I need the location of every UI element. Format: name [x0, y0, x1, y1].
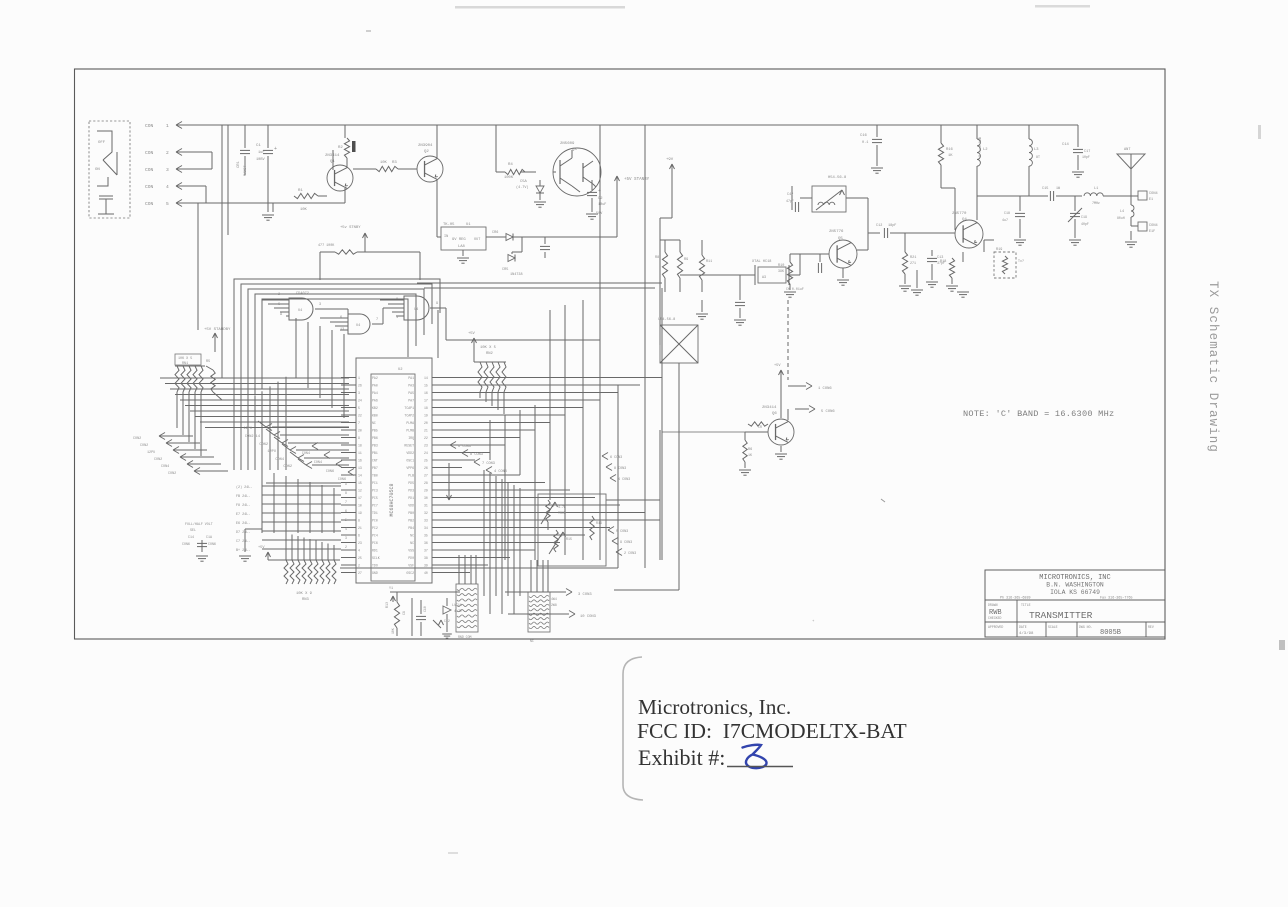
svg-text:25: 25	[424, 458, 428, 462]
svg-text:Tx?: Tx?	[1018, 259, 1024, 263]
svg-text:C19: C19	[1081, 215, 1087, 219]
svg-text:PB3: PB3	[372, 443, 378, 447]
svg-text:E7 24L-: E7 24L-	[236, 513, 250, 517]
svg-text:C14: C14	[188, 535, 194, 539]
svg-text:100K: 100K	[504, 176, 514, 180]
svg-text:33: 33	[424, 518, 428, 522]
svg-text:CK 0.01uF: CK 0.01uF	[786, 287, 804, 291]
svg-text:CON2: CON2	[283, 465, 292, 469]
svg-text:ANT: ANT	[1124, 148, 1131, 152]
svg-text:R1: R1	[298, 189, 303, 193]
svg-text:26: 26	[424, 466, 428, 470]
svg-text:+5v STNBY: +5v STNBY	[340, 226, 361, 230]
svg-text:19: 19	[424, 413, 428, 417]
svg-text:271: 271	[910, 261, 916, 265]
svg-text:80uH: 80uH	[1117, 216, 1125, 220]
svg-text:Q4: Q4	[962, 218, 967, 222]
svg-text:FULL/HALF VOLT: FULL/HALF VOLT	[185, 522, 213, 526]
svg-text:PD5: PD5	[408, 481, 414, 485]
svg-text:PC1: PC1	[372, 481, 378, 485]
svg-text:VSS: VSS	[408, 548, 414, 552]
svg-text:PLMB: PLMB	[406, 428, 414, 432]
svg-text:3: 3	[358, 391, 360, 395]
svg-text:+: +	[274, 146, 277, 152]
svg-text:32: 32	[424, 511, 428, 515]
svg-text:CON2: CON2	[168, 472, 176, 476]
svg-text:4 CON3: 4 CON3	[618, 478, 630, 482]
svg-text:1 CON6: 1 CON6	[818, 387, 832, 391]
svg-text:8: 8	[358, 518, 360, 522]
svg-text:VDD2: VDD2	[406, 451, 414, 455]
svg-text:R8: R8	[655, 256, 659, 260]
svg-text:PA6: PA6	[372, 398, 378, 402]
svg-text:LA8: LA8	[458, 245, 466, 249]
svg-text:RN2: RN2	[486, 352, 494, 356]
svg-text:MAX87: MAX87	[244, 165, 248, 176]
svg-text:8: 8	[345, 491, 347, 495]
svg-text:10 CON3: 10 CON3	[580, 615, 597, 619]
svg-text:4: 4	[166, 184, 169, 190]
svg-text:1N4738: 1N4738	[510, 273, 523, 277]
svg-text:C8: C8	[402, 611, 406, 615]
svg-text:13: 13	[358, 466, 362, 470]
svg-text:21: 21	[424, 428, 428, 432]
svg-text:CON6: CON6	[182, 542, 190, 546]
svg-text:27: 27	[358, 571, 362, 575]
svg-text:3: 3	[166, 167, 169, 173]
svg-text:C12: C12	[444, 619, 450, 623]
svg-text:DWG NO.: DWG NO.	[1079, 625, 1092, 629]
svg-text:REV: REV	[1148, 625, 1154, 629]
svg-text:10uF: 10uF	[598, 203, 606, 207]
svg-text:5: 5	[358, 406, 360, 410]
svg-text:CON6: CON6	[208, 542, 216, 546]
svg-text:CON4: CON4	[1149, 224, 1158, 228]
svg-text:12: 12	[358, 488, 362, 492]
svg-text:KB0: KB0	[372, 413, 378, 417]
svg-text:RND COM: RND COM	[458, 635, 471, 639]
svg-text:RD1: RD1	[372, 548, 378, 552]
svg-text:PD1: PD1	[408, 496, 414, 500]
svg-text:23: 23	[358, 541, 362, 545]
svg-text:TRIM: TRIM	[558, 511, 566, 515]
svg-text:U4: U4	[356, 324, 360, 328]
svg-text:31: 31	[424, 503, 428, 507]
svg-text:+9V: +9V	[666, 158, 674, 162]
svg-text:TCAP1: TCAP1	[404, 406, 414, 410]
svg-text:Q2: Q2	[424, 150, 429, 154]
svg-text:CON4: CON4	[161, 465, 169, 469]
svg-text:Fax 316-365-7765: Fax 316-365-7765	[1100, 597, 1133, 601]
svg-text:10K: 10K	[300, 208, 308, 212]
svg-text:R13: R13	[385, 602, 389, 608]
svg-text:1W: 1W	[1056, 186, 1060, 190]
svg-text:PA0: PA0	[372, 383, 378, 387]
svg-text:15: 15	[358, 481, 362, 485]
svg-text:5: 5	[166, 201, 169, 207]
svg-text:10K X 5: 10K X 5	[480, 346, 497, 350]
svg-text:16: 16	[424, 391, 428, 395]
svg-text:VDD: VDD	[408, 503, 414, 507]
svg-text:30: 30	[424, 496, 428, 500]
svg-text:Q3: Q3	[572, 148, 577, 152]
svg-text:6 CON3: 6 CON3	[458, 445, 471, 449]
svg-text:U54-56-8: U54-56-8	[658, 318, 675, 322]
svg-text:CR1: CR1	[237, 160, 241, 168]
svg-text:PC4: PC4	[372, 533, 378, 537]
svg-text:CON4: CON4	[302, 452, 310, 456]
svg-text:26: 26	[358, 383, 362, 387]
svg-text:C17: C17	[1084, 150, 1090, 154]
svg-text:C18: C18	[1004, 211, 1010, 215]
svg-text:2: 2	[345, 545, 347, 549]
svg-text:R16: R16	[946, 148, 954, 152]
svg-text:7: 7	[358, 421, 360, 425]
svg-text:PA1: PA1	[408, 376, 414, 380]
svg-text:TX Schematic Drawing: TX Schematic Drawing	[1206, 281, 1220, 453]
svg-text:2W8: 2W8	[551, 603, 557, 607]
svg-text:C15: C15	[1042, 187, 1048, 191]
svg-text:5 CON6: 5 CON6	[821, 410, 835, 414]
svg-text:R21: R21	[910, 256, 916, 260]
svg-text:B.N. WASHINGTON: B.N. WASHINGTON	[1046, 582, 1104, 589]
svg-text:(4.7V): (4.7V)	[516, 185, 529, 190]
svg-text:TB0: TB0	[372, 473, 378, 477]
svg-text:PC3: PC3	[372, 488, 378, 492]
svg-text:PB1: PB1	[372, 451, 378, 455]
svg-text:F8 24L-: F8 24L-	[236, 504, 250, 508]
svg-text:VPP6: VPP6	[406, 466, 414, 470]
svg-text:5: 5	[345, 518, 347, 522]
svg-text:U1: U1	[466, 223, 471, 227]
svg-text:L1: L1	[1094, 187, 1098, 191]
svg-text:C14: C14	[1062, 143, 1070, 147]
svg-text:OFF: OFF	[98, 141, 106, 145]
svg-text:10: 10	[358, 503, 362, 507]
svg-text:PD3: PD3	[408, 488, 414, 492]
svg-text:12PU: 12PU	[243, 427, 252, 431]
svg-text:9: 9	[358, 436, 360, 440]
svg-text:10K: 10K	[380, 161, 388, 165]
svg-text:7 CON3: 7 CON3	[482, 462, 495, 466]
svg-text:PC7: PC7	[372, 503, 378, 507]
svg-text:3?pF: 3?pF	[937, 261, 945, 265]
svg-text:PC0: PC0	[372, 518, 378, 522]
svg-text:XTAL HC18: XTAL HC18	[752, 260, 771, 264]
svg-text:477 100K: 477 100K	[318, 244, 335, 248]
svg-text:35: 35	[424, 533, 428, 537]
svg-text:47pF: 47pF	[786, 199, 794, 203]
svg-text:CR5: CR5	[502, 268, 508, 272]
svg-text:C16: C16	[860, 134, 868, 138]
svg-text:L2: L2	[983, 148, 988, 152]
svg-text:+5V: +5V	[468, 332, 476, 336]
svg-text:PA7: PA7	[408, 398, 414, 402]
svg-text:CNT: CNT	[372, 458, 378, 462]
svg-text:PC6: PC6	[372, 541, 378, 545]
svg-text:22: 22	[424, 436, 428, 440]
svg-text:4: 4	[345, 527, 347, 531]
svg-text:A: A	[280, 313, 283, 317]
svg-text:2: 2	[166, 150, 169, 156]
svg-text:19: 19	[358, 511, 362, 515]
svg-text:CON6: CON6	[326, 470, 334, 474]
svg-text:39: 39	[424, 563, 428, 567]
svg-text:6: 6	[358, 533, 360, 537]
svg-text:CON2: CON2	[259, 443, 268, 447]
svg-text:8 CON3: 8 CON3	[470, 453, 483, 457]
svg-text:CON: CON	[145, 123, 154, 129]
svg-text:1: 1	[166, 123, 169, 129]
svg-text:R2: R2	[338, 146, 343, 150]
svg-text:+5V: +5V	[258, 546, 265, 550]
svg-text:OSC2: OSC2	[406, 571, 414, 575]
svg-text:11: 11	[358, 451, 362, 455]
svg-text:2N3414: 2N3414	[762, 406, 777, 410]
svg-text:+5V STANBY: +5V STANBY	[624, 178, 650, 182]
svg-text:PA4: PA4	[372, 391, 378, 395]
svg-text:2N5770: 2N5770	[952, 212, 967, 216]
svg-text:39K: 39K	[778, 269, 784, 273]
svg-text:DATE: DATE	[1019, 625, 1027, 629]
svg-text:PA5: PA5	[408, 391, 414, 395]
svg-text:9: 9	[345, 482, 347, 486]
svg-text:R3: R3	[392, 161, 397, 165]
svg-text:+5V STANDBY: +5V STANDBY	[204, 328, 231, 332]
svg-text:24: 24	[424, 451, 428, 455]
svg-text:23: 23	[424, 443, 428, 447]
svg-text:1uF: 1uF	[258, 151, 264, 155]
svg-text:4.7K: 4.7K	[558, 505, 566, 509]
svg-text:PLMA: PLMA	[406, 421, 414, 425]
svg-text:9: 9	[436, 302, 438, 306]
svg-text:3: 3	[345, 536, 347, 540]
svg-text:E1F: E1F	[1149, 230, 1155, 234]
svg-text:E6 24L-: E6 24L-	[236, 522, 250, 526]
svg-text:R15: R15	[566, 537, 572, 541]
svg-text:10K X 9: 10K X 9	[296, 592, 313, 596]
svg-text:VSF: VSF	[408, 563, 414, 567]
svg-text:8T: 8T	[1036, 155, 1040, 159]
svg-text:28: 28	[424, 481, 428, 485]
svg-text:C10: C10	[423, 606, 427, 612]
svg-text:B+ 24L-: B+ 24L-	[236, 549, 250, 553]
svg-text:GND: GND	[372, 571, 378, 575]
svg-text:+5V: +5V	[774, 364, 781, 368]
svg-text:4 CON3: 4 CON3	[494, 470, 507, 474]
svg-text:IRQ: IRQ	[408, 436, 414, 440]
svg-text:18pF: 18pF	[888, 224, 896, 228]
svg-text:TRANSMITTER: TRANSMITTER	[1029, 610, 1093, 621]
svg-text:LVC1A: LVC1A	[452, 603, 462, 607]
svg-text:7: 7	[376, 318, 378, 322]
svg-text:CON2: CON2	[154, 458, 162, 462]
svg-text:20: 20	[424, 421, 428, 425]
svg-text:PC5: PC5	[372, 496, 378, 500]
svg-text:NC: NC	[530, 639, 534, 643]
svg-text:H54-56-8: H54-56-8	[828, 176, 847, 180]
svg-text:FB 24L-: FB 24L-	[236, 495, 250, 499]
svg-text:1: 1	[396, 316, 398, 320]
svg-text:0.1: 0.1	[862, 141, 868, 145]
svg-text:PD0: PD0	[408, 556, 414, 560]
svg-text:E1: E1	[1149, 198, 1153, 202]
svg-text:C2: C2	[598, 197, 603, 201]
svg-text:C1A: C1A	[206, 535, 212, 539]
svg-text:KB2: KB2	[372, 406, 378, 410]
svg-text:C7 24L-: C7 24L-	[236, 540, 250, 544]
svg-text:U2: U2	[398, 368, 403, 372]
svg-text:TD1: TD1	[372, 511, 378, 515]
svg-text:Q6: Q6	[772, 412, 777, 416]
svg-text:SCLK: SCLK	[372, 556, 380, 560]
svg-text:2N3904: 2N3904	[418, 144, 433, 148]
svg-text:38: 38	[424, 556, 428, 560]
svg-text:PB6: PB6	[372, 436, 378, 440]
svg-text:OSC1: OSC1	[406, 458, 414, 462]
svg-text:SCALE: SCALE	[1048, 625, 1058, 629]
svg-text:40: 40	[424, 571, 428, 575]
svg-text:9V REG: 9V REG	[452, 238, 466, 242]
svg-text:27: 27	[424, 473, 428, 477]
svg-text:18: 18	[358, 443, 362, 447]
svg-text:8 Turn A1B: 8 Turn A1B	[978, 137, 982, 157]
svg-text:L4: L4	[1120, 210, 1124, 214]
svg-text:12PU: 12PU	[147, 451, 155, 455]
svg-text:L3: L3	[1034, 148, 1039, 152]
svg-text:R4: R4	[508, 163, 513, 167]
svg-text:NOTE: 'C' BAND = 16.6300 MHz: NOTE: 'C' BAND = 16.6300 MHz	[963, 409, 1114, 419]
svg-text:CON4: CON4	[314, 461, 322, 465]
svg-text:CHECKED: CHECKED	[988, 616, 1001, 620]
svg-text:4.7V: 4.7V	[454, 609, 462, 613]
svg-text:36: 36	[424, 541, 428, 545]
svg-text:22: 22	[358, 413, 362, 417]
svg-text:TITLE: TITLE	[1021, 603, 1031, 607]
svg-text:14: 14	[424, 376, 428, 380]
svg-text:MC68HC705C8: MC68HC705C8	[389, 483, 395, 516]
svg-text:5 CON3: 5 CON3	[616, 530, 628, 534]
svg-text:10BV: 10BV	[256, 158, 265, 162]
svg-text:4: 4	[358, 548, 360, 552]
svg-text:24: 24	[358, 398, 362, 402]
svg-text:APPROVED: APPROVED	[988, 625, 1003, 629]
svg-text:OUT: OUT	[474, 238, 480, 242]
svg-text:7: 7	[345, 500, 347, 504]
svg-text:CON: CON	[145, 167, 154, 173]
svg-text:CON2 14: CON2 14	[245, 435, 260, 439]
svg-text:CR6: CR6	[492, 231, 498, 235]
svg-text:2N5609: 2N5609	[560, 142, 575, 146]
svg-text:4/3/98: 4/3/98	[1019, 631, 1034, 636]
svg-text:25: 25	[358, 556, 362, 560]
svg-text:CON: CON	[145, 201, 154, 207]
svg-text:7MHz: 7MHz	[1092, 201, 1100, 205]
svg-text:PB7: PB7	[372, 466, 378, 470]
svg-text:CON: CON	[145, 150, 154, 156]
svg-text:4W4: 4W4	[551, 597, 557, 601]
svg-text:C13: C13	[937, 256, 943, 260]
svg-text:40pF: 40pF	[1081, 222, 1089, 226]
svg-text:3: 3	[319, 303, 321, 307]
svg-text:CON4: CON4	[275, 458, 284, 462]
svg-text:2N5776: 2N5776	[829, 230, 844, 234]
svg-text:R16: R16	[596, 521, 602, 525]
svg-text:34: 34	[424, 526, 428, 530]
svg-text:RESET: RESET	[404, 443, 414, 447]
svg-text:10pF: 10pF	[1082, 155, 1090, 159]
svg-text:1K: 1K	[748, 453, 752, 457]
svg-text:CON2: CON2	[133, 437, 141, 441]
svg-text:+: +	[812, 620, 815, 624]
svg-text:6: 6	[345, 509, 347, 513]
svg-text:RN3: RN3	[302, 598, 310, 602]
svg-text:R11: R11	[706, 260, 712, 264]
svg-text:ON: ON	[95, 168, 100, 172]
svg-text:10K X 5: 10K X 5	[178, 357, 192, 361]
svg-text:CON4: CON4	[1149, 192, 1158, 196]
svg-text:TK-05: TK-05	[443, 223, 455, 227]
svg-text:8 CON3: 8 CON3	[614, 467, 626, 471]
svg-text:(2) 24L-: (2) 24L-	[236, 485, 252, 490]
svg-text:21: 21	[358, 526, 362, 530]
svg-text:16: 16	[358, 458, 362, 462]
svg-text:IOLA KS 66749: IOLA KS 66749	[1050, 589, 1100, 596]
svg-text:TDO: TDO	[372, 563, 378, 567]
svg-text:PA2: PA2	[372, 376, 378, 380]
svg-text:PB5: PB5	[372, 428, 378, 432]
svg-text:3 CON3: 3 CON3	[578, 593, 592, 597]
svg-text:SEL: SEL	[190, 528, 196, 532]
svg-text:6 CON3: 6 CON3	[610, 456, 622, 460]
svg-text:20: 20	[358, 428, 362, 432]
svg-text:U4: U4	[298, 309, 302, 313]
svg-text:A3: A3	[762, 276, 766, 280]
svg-text:17: 17	[424, 398, 428, 402]
svg-text:14: 14	[358, 473, 362, 477]
svg-text:C1: C1	[256, 144, 261, 148]
svg-text:IN: IN	[444, 235, 448, 239]
svg-text:29: 29	[424, 488, 428, 492]
svg-text:NC: NC	[410, 541, 414, 545]
svg-text:PLB: PLB	[408, 473, 414, 477]
svg-text:PA3: PA3	[408, 383, 414, 387]
svg-text:37: 37	[424, 548, 428, 552]
svg-text:CON: CON	[145, 184, 154, 190]
svg-text:15: 15	[424, 383, 428, 387]
svg-text:9 CON3: 9 CON3	[620, 541, 632, 545]
svg-text:Y1: Y1	[389, 587, 393, 591]
svg-text:R6: R6	[748, 448, 752, 452]
svg-text:2 CON3: 2 CON3	[624, 552, 636, 556]
svg-text:NC: NC	[372, 421, 376, 425]
svg-text:8005B: 8005B	[1100, 629, 1121, 637]
svg-text:C5A: C5A	[520, 180, 528, 184]
svg-text:Ph 316-365-6889: Ph 316-365-6889	[1000, 596, 1031, 601]
svg-text:PC2: PC2	[372, 526, 378, 530]
svg-text:18: 18	[424, 406, 428, 410]
svg-text:12PU: 12PU	[267, 450, 276, 454]
svg-text:NC: NC	[410, 533, 414, 537]
svg-text:4u7: 4u7	[1002, 218, 1008, 222]
svg-text:CR: CR	[758, 425, 762, 429]
svg-text:10K: 10K	[391, 628, 395, 634]
svg-text:PB2: PB2	[408, 518, 414, 522]
svg-text:1K: 1K	[948, 154, 953, 158]
svg-text:RN1: RN1	[182, 362, 188, 366]
svg-text:DRAWN: DRAWN	[988, 603, 998, 607]
svg-text:C12: C12	[876, 224, 882, 228]
